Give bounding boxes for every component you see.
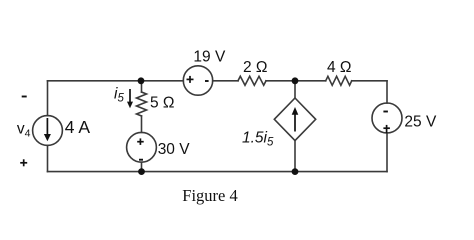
svg-text:25 V: 25 V	[404, 114, 437, 131]
svg-text:2 Ω: 2 Ω	[243, 59, 268, 76]
svg-text:4 A: 4 A	[65, 117, 91, 137]
svg-text:4 Ω: 4 Ω	[327, 59, 352, 76]
svg-text:Figure 4: Figure 4	[182, 186, 237, 205]
svg-text:5 Ω: 5 Ω	[150, 95, 175, 112]
svg-text:30 V: 30 V	[158, 141, 191, 158]
svg-text:19 V: 19 V	[193, 49, 226, 66]
